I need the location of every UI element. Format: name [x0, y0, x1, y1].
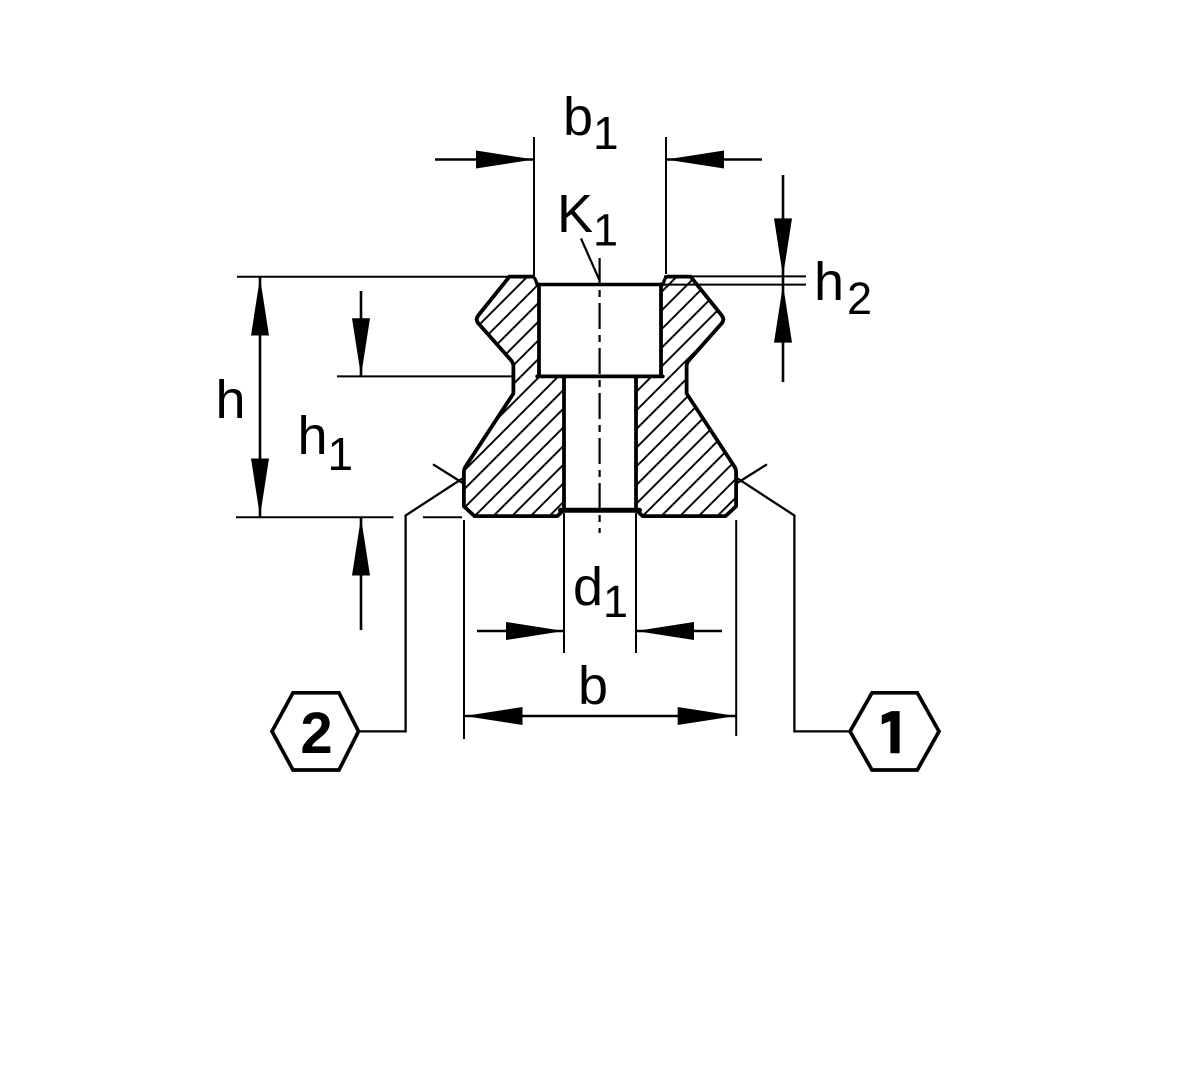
svg-text:2: 2 — [300, 701, 332, 766]
svg-text:b: b — [578, 656, 608, 716]
svg-text:h: h — [216, 370, 246, 430]
